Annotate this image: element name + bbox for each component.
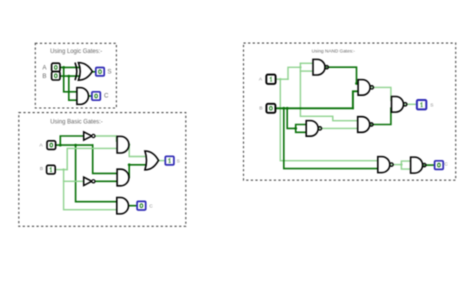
nand gate N5: [358, 117, 373, 133]
wire B down branch to AND U7 input 2: [64, 170, 117, 210]
node B junction 2: [286, 107, 289, 110]
nand gate N4: [306, 121, 321, 137]
svg-text:C: C: [444, 162, 448, 168]
wire AND U5 output to OR U8 input 1: [129, 145, 145, 157]
wire B branch to NOT U4: [64, 180, 84, 182]
wire A down to AND U7 input 1: [76, 145, 117, 202]
output S circuit 3: [417, 100, 426, 109]
circuit 1 boundary box: [35, 43, 116, 108]
wire NAND N3 output to S: [407, 103, 417, 105]
output S circuit 1: [96, 68, 104, 76]
node N4 bracket junction: [294, 127, 297, 130]
wire B to XOR U1 input 2: [60, 75, 79, 77]
node B junction 1: [282, 107, 285, 110]
svg-text:Using NAND Gates:-: Using NAND Gates:-: [312, 48, 356, 53]
wire NAND N7 output to C: [426, 164, 435, 166]
svg-text:S: S: [177, 159, 180, 165]
wire NAND N1 input vertical: [300, 63, 357, 120]
node B junction: [62, 168, 64, 170]
input B circuit 3: [266, 104, 275, 113]
svg-text:C: C: [149, 203, 153, 209]
not gate U4: [84, 177, 95, 185]
nand gate N2: [358, 80, 373, 96]
wire NAND N2 output to NAND N3 input 1: [374, 87, 392, 100]
wire NAND N1 output to NAND N2 input 1: [329, 67, 359, 83]
wire A down to NAND N6 input 1: [280, 79, 378, 161]
wire AND U6 output to OR U8 input 2: [129, 165, 145, 178]
wire B down to NAND N6 input 2: [284, 108, 378, 168]
wire NAND N4 input bracket: [296, 125, 307, 133]
output C circuit 3: [435, 161, 444, 170]
wire XOR U1 output to S: [92, 71, 96, 73]
node N2 input 1: [355, 82, 358, 85]
wire B bus: [55, 169, 67, 171]
svg-text:B: B: [42, 73, 46, 80]
input A circuit 2: [47, 141, 56, 150]
node AND U6 output corner: [128, 163, 131, 166]
node N1 net junction: [299, 66, 301, 68]
nand gate N7: [411, 157, 426, 173]
wire A to AND U6 input 1: [93, 145, 117, 173]
and gate U7: [117, 198, 129, 214]
wire A to XOR U1 input 1: [60, 66, 79, 68]
circuit 2 boundary box: [19, 113, 186, 227]
wire NAND N1 input 2: [300, 70, 313, 72]
wire NAND N4 output to NAND N5 input 2: [322, 127, 358, 129]
wire NAND N5 output to NAND N3 input 2: [373, 108, 391, 124]
wire NOT U3 output to AND U5 input 1: [95, 136, 117, 141]
and gate U2: [77, 88, 89, 105]
input B circuit 2: [47, 165, 56, 174]
wire AND U2 output to C: [89, 95, 93, 97]
input A circuit 3: [266, 75, 275, 84]
or gate U8: [145, 151, 159, 170]
svg-text:Using Basic Gates:-: Using Basic Gates:-: [50, 119, 102, 125]
xor gate U1: [75, 63, 92, 81]
wire A up to NAND N1 net: [288, 67, 300, 79]
nand gate N3: [392, 97, 407, 113]
wire NAND N7 input bracket: [401, 161, 410, 169]
wire NAND N1 input 1: [300, 62, 313, 64]
node A tap junction: [62, 66, 65, 69]
wire AND U7 output to C: [129, 205, 138, 207]
node A junction 2: [74, 144, 77, 147]
wire A bus: [56, 144, 93, 146]
svg-text:B: B: [259, 106, 262, 112]
wire NOT U4 output to AND U6 input 2: [95, 180, 117, 182]
node N7 bracket junction: [400, 163, 402, 165]
wire B up branch to AND U5 input 2: [67, 148, 117, 169]
wire OR U8 output to S: [159, 160, 166, 162]
wire B bus: [275, 107, 353, 109]
svg-text:C: C: [104, 92, 109, 99]
wire A up to NOT U3: [60, 136, 83, 145]
svg-text:Using Logic Gates:-: Using Logic Gates:-: [50, 49, 102, 55]
nand gate N6: [378, 157, 393, 173]
wire NAND N6 output to NAND N7 bracket: [393, 164, 401, 166]
and gate U5: [117, 136, 129, 153]
output S circuit 2: [165, 156, 174, 165]
node A junction 1: [59, 144, 62, 147]
wire A bus: [276, 78, 288, 80]
wire A branch to AND U2 input 1: [64, 67, 77, 91]
svg-text:S: S: [107, 69, 111, 76]
wire B to NAND N4 bracket: [287, 108, 296, 128]
input A circuit 1: [52, 63, 60, 71]
nand gate N1: [313, 59, 328, 75]
svg-text:S: S: [430, 102, 433, 108]
not gate U3: [84, 132, 95, 140]
wire B up to NAND N2 input 2: [353, 91, 358, 108]
wire B branch to AND U2 input 2: [69, 76, 77, 100]
input B circuit 1: [52, 72, 60, 80]
node A junction: [279, 78, 281, 80]
output C circuit 1: [92, 92, 100, 100]
circuit 3 boundary box: [244, 43, 456, 180]
svg-text:B: B: [40, 166, 43, 172]
output C circuit 2: [137, 201, 146, 210]
and gate U6: [117, 169, 129, 186]
node B tap junction: [67, 75, 70, 78]
node AND U5 output: [128, 144, 130, 146]
